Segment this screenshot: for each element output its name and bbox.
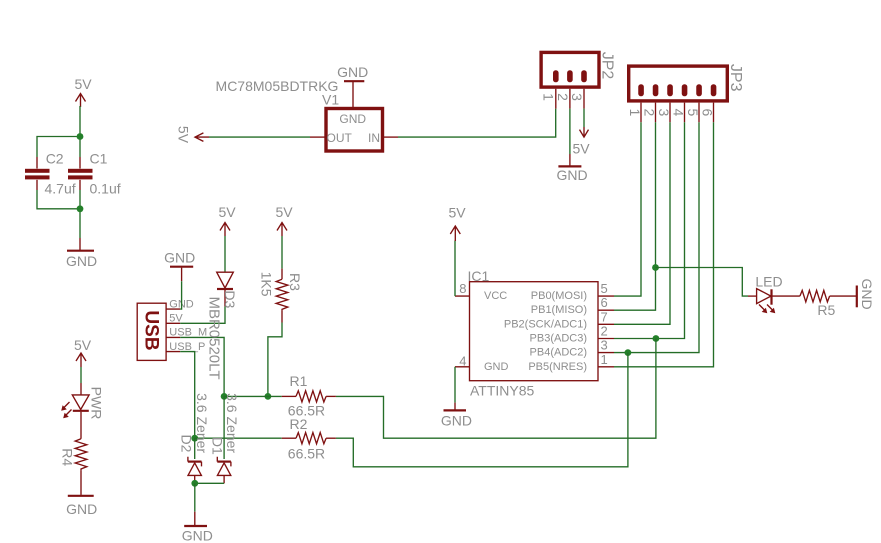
svg-text:6: 6 [601,295,608,310]
svg-text:5V: 5V [74,76,92,92]
svg-text:PB4(ADC2): PB4(ADC2) [530,347,587,359]
svg-text:USB: USB [141,310,162,350]
svg-text:5V: 5V [175,126,191,144]
svg-text:GND: GND [182,527,213,543]
svg-text:5V: 5V [572,141,590,157]
svg-text:GND: GND [556,167,587,183]
svg-text:66.5R: 66.5R [288,445,325,461]
svg-text:R4: R4 [60,448,76,466]
svg-text:GND: GND [66,501,97,517]
svg-text:GND: GND [484,361,509,373]
svg-text:1K5: 1K5 [258,272,274,297]
svg-text:1: 1 [541,93,557,101]
svg-text:GND: GND [339,112,366,126]
svg-text:PB0(MOSI): PB0(MOSI) [531,290,587,302]
svg-text:GND: GND [337,64,368,80]
svg-text:PB3(ADC3): PB3(ADC3) [530,333,587,345]
svg-text:PB2(SCK/ADC1): PB2(SCK/ADC1) [504,318,587,330]
svg-text:IN: IN [368,131,380,145]
svg-text:JP3: JP3 [727,64,744,92]
svg-text:C2: C2 [46,151,64,167]
svg-text:IC1: IC1 [468,268,490,284]
svg-text:5V: 5V [74,337,92,353]
svg-text:PB5(NRES): PB5(NRES) [528,361,587,373]
svg-text:V1: V1 [322,91,339,107]
svg-text:D2: D2 [179,435,195,453]
svg-text:2: 2 [601,324,608,339]
svg-text:R1: R1 [290,373,308,389]
svg-text:PB1(MISO): PB1(MISO) [531,304,587,316]
svg-text:GND: GND [441,412,472,428]
svg-text:PWR: PWR [88,387,104,420]
svg-text:D3: D3 [222,290,238,308]
svg-text:MBR0520LT: MBR0520LT [205,296,222,379]
svg-text:C1: C1 [90,151,108,167]
svg-text:ATTINY85: ATTINY85 [470,382,535,398]
svg-text:3: 3 [569,93,585,101]
svg-text:4.7uf: 4.7uf [45,181,76,197]
svg-text:VCC: VCC [484,290,507,302]
svg-text:R5: R5 [817,302,835,318]
svg-text:8: 8 [459,281,466,296]
svg-text:R3: R3 [287,273,303,291]
svg-text:3.6 Zener: 3.6 Zener [194,393,210,453]
svg-text:5V: 5V [218,204,236,220]
svg-text:3.6 Zener: 3.6 Zener [224,393,240,453]
svg-text:MC78M05BDTRKG: MC78M05BDTRKG [216,78,339,94]
svg-text:LED: LED [755,273,782,289]
svg-text:GND: GND [859,278,875,309]
svg-text:5V: 5V [448,205,466,221]
svg-text:R2: R2 [290,416,308,432]
svg-text:5: 5 [601,281,608,296]
svg-text:D1: D1 [209,437,225,455]
svg-text:7: 7 [601,309,608,324]
svg-text:GND: GND [164,250,195,266]
svg-text:5V: 5V [275,204,293,220]
svg-text:JP2: JP2 [599,52,616,80]
svg-text:OUT: OUT [327,131,353,145]
svg-text:GND: GND [66,253,97,269]
svg-text:0.1uf: 0.1uf [90,181,121,197]
svg-text:2: 2 [555,93,571,101]
svg-text:1: 1 [601,352,608,367]
svg-text:3: 3 [601,338,608,353]
